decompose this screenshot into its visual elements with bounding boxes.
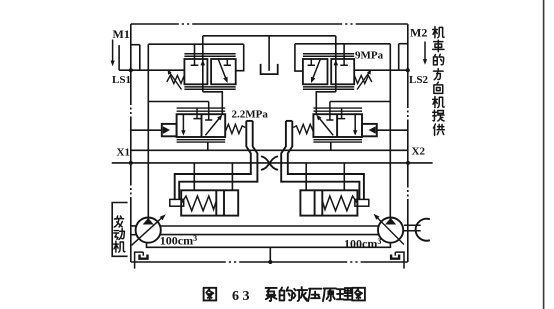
left restrictor channel cap: [246, 120, 252, 122]
valve V1 blocked port right cell: [224, 59, 231, 65]
servo cylinder right piston: [315, 190, 323, 215]
wire engine stub lower: [131, 234, 136, 236]
wire M1 port vertical: [118, 45, 120, 70]
side note 方: [434, 68, 444, 79]
valve V1 spring adjust arrow: [169, 71, 182, 90]
junction dot X1: [129, 161, 133, 165]
servo cylinder right spring: [322, 196, 357, 211]
valve V1 right cell box: [211, 59, 236, 84]
valve V1 right cell diagonal arrow: [218, 59, 227, 81]
valve V1 blocked port left cell: [191, 59, 199, 65]
caption 图: [352, 288, 365, 301]
side note 向: [434, 82, 443, 93]
wire pump interconnect upper: [160, 234, 379, 236]
svg-text:100cm3: 100cm3: [160, 234, 197, 248]
wire left cylinder feed a: [193, 163, 195, 190]
right restrictor channel inner line: [281, 121, 359, 199]
junction dot LS2: [406, 68, 410, 72]
valve V1 up-flow arrow: [201, 60, 206, 66]
servo cylinder left rod plate: [170, 199, 184, 206]
left restrictor channel inner line: [179, 121, 257, 199]
caption 原: [323, 288, 336, 301]
valve V4 infinite-position lines top: [313, 108, 362, 111]
wire left feedback horizontal: [148, 43, 243, 45]
engine label 机: [114, 241, 125, 252]
servo cylinder right rod plate: [355, 199, 369, 206]
drain right cup: [391, 255, 399, 259]
caption 泵: [266, 288, 277, 301]
tank symbol top center: [261, 64, 278, 74]
svg-text:100cm3: 100cm3: [344, 236, 381, 250]
left restrictor channel outer line: [175, 121, 251, 199]
port M2 flow arrow: [424, 42, 426, 60]
valve V2 up-flow arrow: [334, 60, 339, 66]
wire right cylinder feed a: [343, 163, 345, 190]
enclosure border top (long-dash double-dot): [131, 23, 408, 25]
wire pump interconnect lower: [147, 243, 391, 247]
pump P2 circle: [378, 218, 403, 243]
wire left valve through line: [202, 36, 204, 92]
drain right line: [395, 252, 404, 269]
pump P1 flow triangle: [143, 218, 154, 225]
pump P2 flow triangle: [385, 218, 396, 225]
right restrictor channel cap: [286, 120, 292, 122]
valve V4 down-flow arrow: [354, 114, 356, 130]
valve V3 down-flow arrow: [182, 114, 184, 130]
wire left valve bottom jog: [203, 92, 223, 115]
valve V2 infinite-position lines top: [303, 54, 354, 57]
wire M2 jog horizontal: [399, 43, 408, 45]
caption 压: [308, 289, 321, 301]
wire mid-left valve drain drop: [207, 142, 209, 150]
page border right edge: [543, 0, 545, 309]
valve V1 infinite-position lines bottom: [184, 87, 235, 89]
side note 机: [433, 27, 444, 38]
drain left line: [135, 252, 144, 269]
engine label 动: [114, 229, 125, 240]
enclosure border left: [130, 24, 132, 262]
valve V3 blocked port left cell: [193, 108, 200, 119]
enclosure border right: [407, 24, 409, 262]
valve V4 blocked port right cell: [338, 108, 345, 119]
valve V3 infinite-position lines bottom: [177, 140, 226, 142]
coupler arc: [416, 219, 430, 241]
wire right pilot tap horizontal: [330, 101, 390, 103]
wire right feedback horizontal: [295, 43, 390, 45]
valve V1 spring: [167, 75, 185, 84]
wire mid-left valve pilot feed: [131, 129, 162, 131]
wire left pump feed vertical: [147, 44, 149, 218]
valve V3 cell divider: [201, 114, 203, 137]
valve V4 pilot arrow: [369, 126, 376, 134]
wire X1-X2 bus horizontal: [112, 162, 433, 164]
svg-text:9MPa: 9MPa: [355, 49, 384, 61]
valve V3 blocked port right cell: [205, 102, 212, 121]
servo cylinder left spring: [181, 196, 216, 211]
side note 提: [433, 110, 444, 121]
valve V2 blocked port left cell: [308, 59, 315, 65]
valve V2 left cell diagonal arrow: [312, 59, 321, 81]
valve V3 main box: [177, 114, 226, 137]
valve V4 main box: [313, 114, 362, 137]
wire right feedback left vertical: [295, 44, 303, 71]
side note 供: [434, 124, 445, 135]
side note 的: [434, 54, 444, 65]
valve V2 left cell box: [303, 59, 328, 84]
wire right valve pilot drop: [343, 44, 345, 59]
wire right valve through line: [335, 36, 337, 92]
servo cylinder left body: [181, 190, 238, 215]
wire LS1 horizontal: [119, 69, 185, 71]
wire right valve bottom jog: [316, 92, 336, 115]
engine label 发: [114, 216, 123, 227]
side note 车: [433, 40, 444, 52]
servo cylinder right body: [300, 190, 357, 215]
valve V2 right cell box: [331, 59, 354, 84]
valve V3 pilot arrow: [163, 126, 170, 134]
valve V4 diagonal arrow: [320, 119, 334, 136]
wire top pilot manifold horizontal: [203, 35, 336, 37]
wire bus upper horizontal: [131, 149, 408, 151]
valve V1 infinite-position lines top: [184, 54, 235, 57]
svg-text:X1: X1: [117, 147, 130, 159]
caption 的: [280, 287, 293, 300]
wire left valve pilot drop: [194, 44, 196, 59]
valve V2 spring adjust arrow: [357, 71, 370, 90]
wire engine stub upper: [131, 225, 136, 227]
valve V3 diagonal arrow: [205, 119, 219, 136]
junction dot bottom border: [268, 260, 272, 264]
wire left pilot tap horizontal: [148, 101, 208, 103]
center cross symbol: [262, 157, 278, 170]
junction dot LS1: [129, 68, 133, 72]
valve V2 blocked port right cell: [340, 59, 348, 65]
valve V1 left cell box: [184, 59, 207, 84]
valve V4 blocked port left cell: [326, 102, 333, 121]
wire mid-right valve drain drop: [330, 142, 332, 150]
svg-text:63: 63: [232, 289, 253, 304]
wire left feedback right vertical: [236, 44, 244, 70]
valve V3 spring 2.2MPa: [225, 124, 245, 133]
wire right cylinder feed b: [305, 163, 307, 190]
wire tank drop vertical: [268, 36, 270, 71]
wire right pump feed vertical: [389, 44, 391, 217]
svg-text:LS2: LS2: [409, 74, 428, 86]
port M1 flow arrow: [112, 40, 114, 62]
servo cylinder left piston: [216, 190, 224, 215]
junction dot X2: [406, 161, 410, 165]
wire pump interconnect top: [160, 225, 379, 227]
pump P1 variable arrow: [132, 216, 164, 245]
wire center drain drop: [269, 247, 271, 262]
svg-text:M2: M2: [410, 26, 427, 40]
pump P2 variable arrow: [376, 216, 404, 245]
coupler shaft ticks: [404, 225, 421, 230]
valve V4 infinite-position lines bottom: [313, 140, 362, 142]
wire M1 jog horizontal: [131, 44, 140, 46]
wire LS2 horizontal: [354, 69, 408, 71]
caption 图: [204, 288, 217, 301]
svg-text:M1: M1: [113, 27, 130, 41]
wire mid-right valve pilot feed: [377, 129, 408, 131]
valve V4 pilot box: [362, 124, 377, 136]
enclosure border bottom: [131, 261, 408, 263]
svg-text:2.2MPa: 2.2MPa: [232, 109, 269, 121]
svg-text:LS1: LS1: [112, 74, 131, 86]
pump P1 circle: [136, 218, 161, 243]
valve V4 cell divider: [336, 114, 338, 137]
engine bracket: [112, 203, 127, 257]
caption 液: [293, 287, 307, 301]
wire M1 inner vertical: [139, 45, 141, 70]
valve V3 infinite-position lines top: [177, 108, 226, 111]
drain left cup: [140, 255, 148, 259]
svg-text:X2: X2: [412, 146, 426, 158]
valve V3 pilot box: [162, 124, 177, 136]
side note 机: [433, 96, 444, 107]
caption 理: [337, 288, 352, 300]
wire M2 inner vertical: [398, 44, 400, 70]
valve V2 infinite-position lines bottom: [303, 87, 354, 89]
valve V4 spring: [293, 124, 313, 133]
wire left cylinder feed b: [231, 163, 233, 190]
right restrictor channel outer line: [288, 121, 364, 199]
valve V2 spring: [354, 75, 372, 84]
